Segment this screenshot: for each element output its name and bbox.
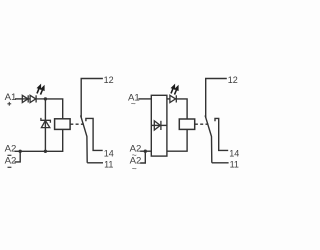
wire zener branch vertical [44, 99, 46, 151]
contact make hook (NO front contact) [215, 118, 228, 150]
LED [30, 95, 45, 102]
relay coil K1 [55, 119, 71, 130]
node A2 tie [144, 150, 147, 153]
wire contact 12 stub [81, 79, 103, 118]
svg-text:A2: A2 [5, 144, 17, 155]
wire A2 first [15, 150, 21, 152]
LED light arrows [37, 86, 44, 95]
contact armature [81, 115, 88, 162]
svg-text:A2: A2 [5, 156, 17, 167]
LED light arrows [171, 86, 178, 95]
node junction LED/coil/zener [44, 97, 47, 100]
relay coil K2 [179, 119, 194, 129]
contact armature [205, 115, 212, 162]
wire contact 11 stub [212, 162, 229, 164]
mechanical link dashed [195, 123, 209, 125]
wire A2 to box [140, 150, 151, 152]
svg-text:12: 12 [228, 75, 238, 85]
polarity mark - [8, 166, 12, 168]
wire inside box [151, 124, 167, 126]
wire A2 second jumper [15, 151, 21, 162]
wire box to LED [167, 98, 170, 100]
diode V1 [22, 95, 30, 102]
diode V3 inside box [154, 121, 161, 130]
svg-text:~: ~ [132, 163, 137, 173]
wire coil bottom to A2 rail [20, 129, 63, 151]
wire LED to coil top [176, 99, 188, 119]
svg-text:11: 11 [230, 160, 239, 170]
mechanical link dashed [70, 123, 84, 125]
polarity mark + [7, 102, 11, 106]
LED right [170, 95, 176, 102]
wire A1 input [15, 98, 22, 100]
svg-text:14: 14 [104, 148, 114, 158]
contact make hook (NO front contact) [86, 118, 103, 150]
svg-text:A1: A1 [5, 92, 17, 103]
node A2 tie [19, 150, 22, 153]
wire A2 second jumper [140, 151, 145, 163]
rectifier module box [151, 95, 167, 156]
wire A1 input [138, 98, 151, 100]
wire junction to coil corner [45, 99, 62, 119]
zener diode V2 [41, 118, 51, 128]
svg-text:~: ~ [131, 99, 136, 109]
svg-text:12: 12 [104, 75, 114, 85]
node zener / A2 rail [44, 150, 47, 153]
wire contact 11 stub [87, 162, 103, 164]
polarity mark - [8, 154, 12, 156]
wire contact 12 stub [206, 79, 227, 118]
svg-text:11: 11 [104, 160, 113, 170]
svg-text:14: 14 [229, 148, 239, 158]
wire coil bottom to box [167, 129, 187, 151]
